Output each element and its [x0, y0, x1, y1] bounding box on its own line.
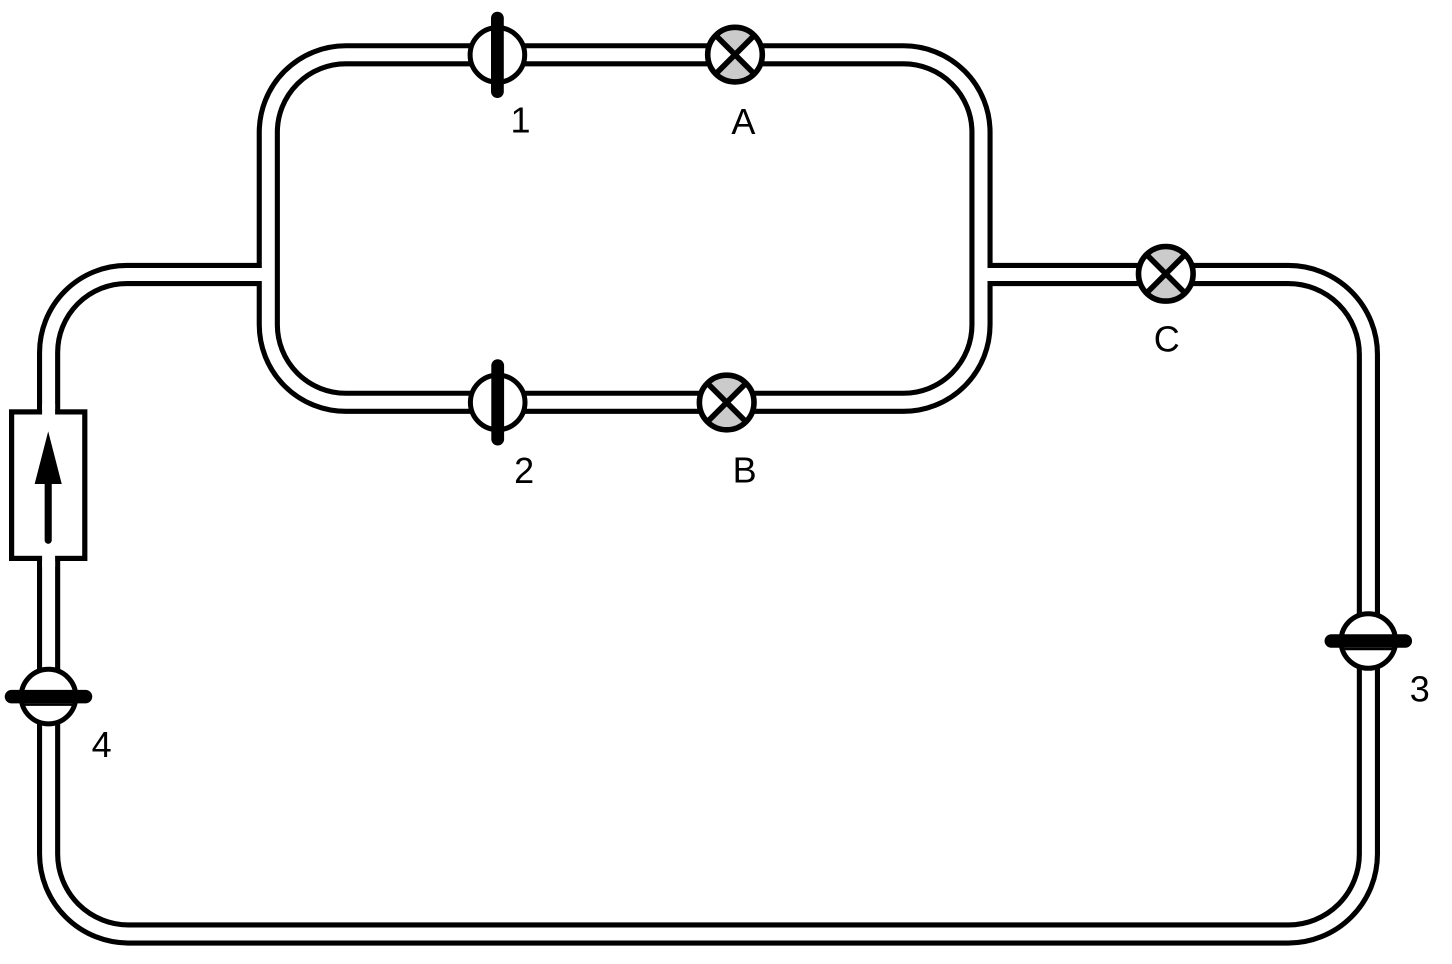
- svg-text:A: A: [731, 101, 755, 142]
- wire parallel loop (top/bottom branch ring): [268, 55, 981, 403]
- lamp B: [699, 375, 754, 430]
- svg-text:2: 2: [514, 450, 534, 491]
- valve 3: [1331, 614, 1405, 669]
- wire parallel loop inner: [268, 55, 981, 403]
- svg-text:4: 4: [92, 724, 112, 765]
- svg-text:1: 1: [510, 99, 530, 140]
- valve 1: [470, 18, 525, 91]
- wire main outer loop inner: [49, 275, 1369, 935]
- lamp A: [708, 27, 763, 82]
- valve 2: [470, 366, 525, 439]
- lamp C: [1139, 246, 1194, 301]
- svg-text:C: C: [1154, 319, 1180, 360]
- svg-text:B: B: [733, 450, 757, 491]
- pump P (box with arrow): [12, 404, 85, 567]
- valve 4: [12, 669, 86, 724]
- svg-text:3: 3: [1410, 669, 1430, 710]
- wire main outer loop: [49, 275, 1369, 935]
